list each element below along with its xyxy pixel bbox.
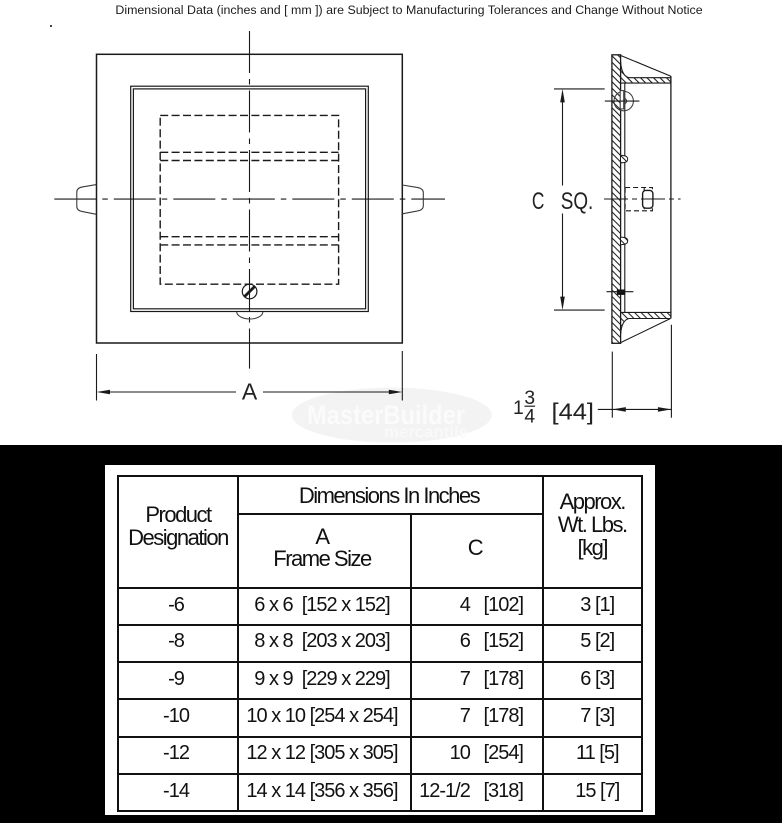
svg-text:SQ.: SQ. (561, 188, 594, 215)
svg-text:[44]: [44] (552, 399, 595, 425)
svg-text:mercantile: mercantile (384, 424, 468, 442)
svg-text:1: 1 (513, 398, 524, 419)
svg-text:4: 4 (524, 407, 535, 428)
svg-text:A: A (242, 379, 258, 405)
svg-text:C: C (532, 188, 545, 215)
